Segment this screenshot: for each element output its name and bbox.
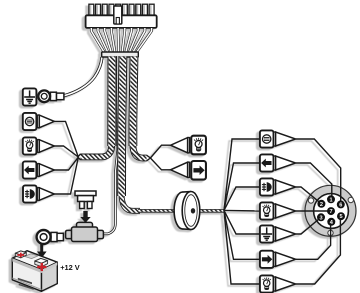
- svg-text:6: 6: [339, 202, 342, 208]
- svg-text:1: 1: [329, 197, 332, 203]
- svg-text:5: 5: [339, 214, 342, 220]
- svg-text:+12 V: +12 V: [60, 263, 80, 272]
- svg-text:3: 3: [319, 215, 322, 221]
- svg-text:2: 2: [320, 202, 323, 208]
- svg-text:7: 7: [329, 209, 332, 215]
